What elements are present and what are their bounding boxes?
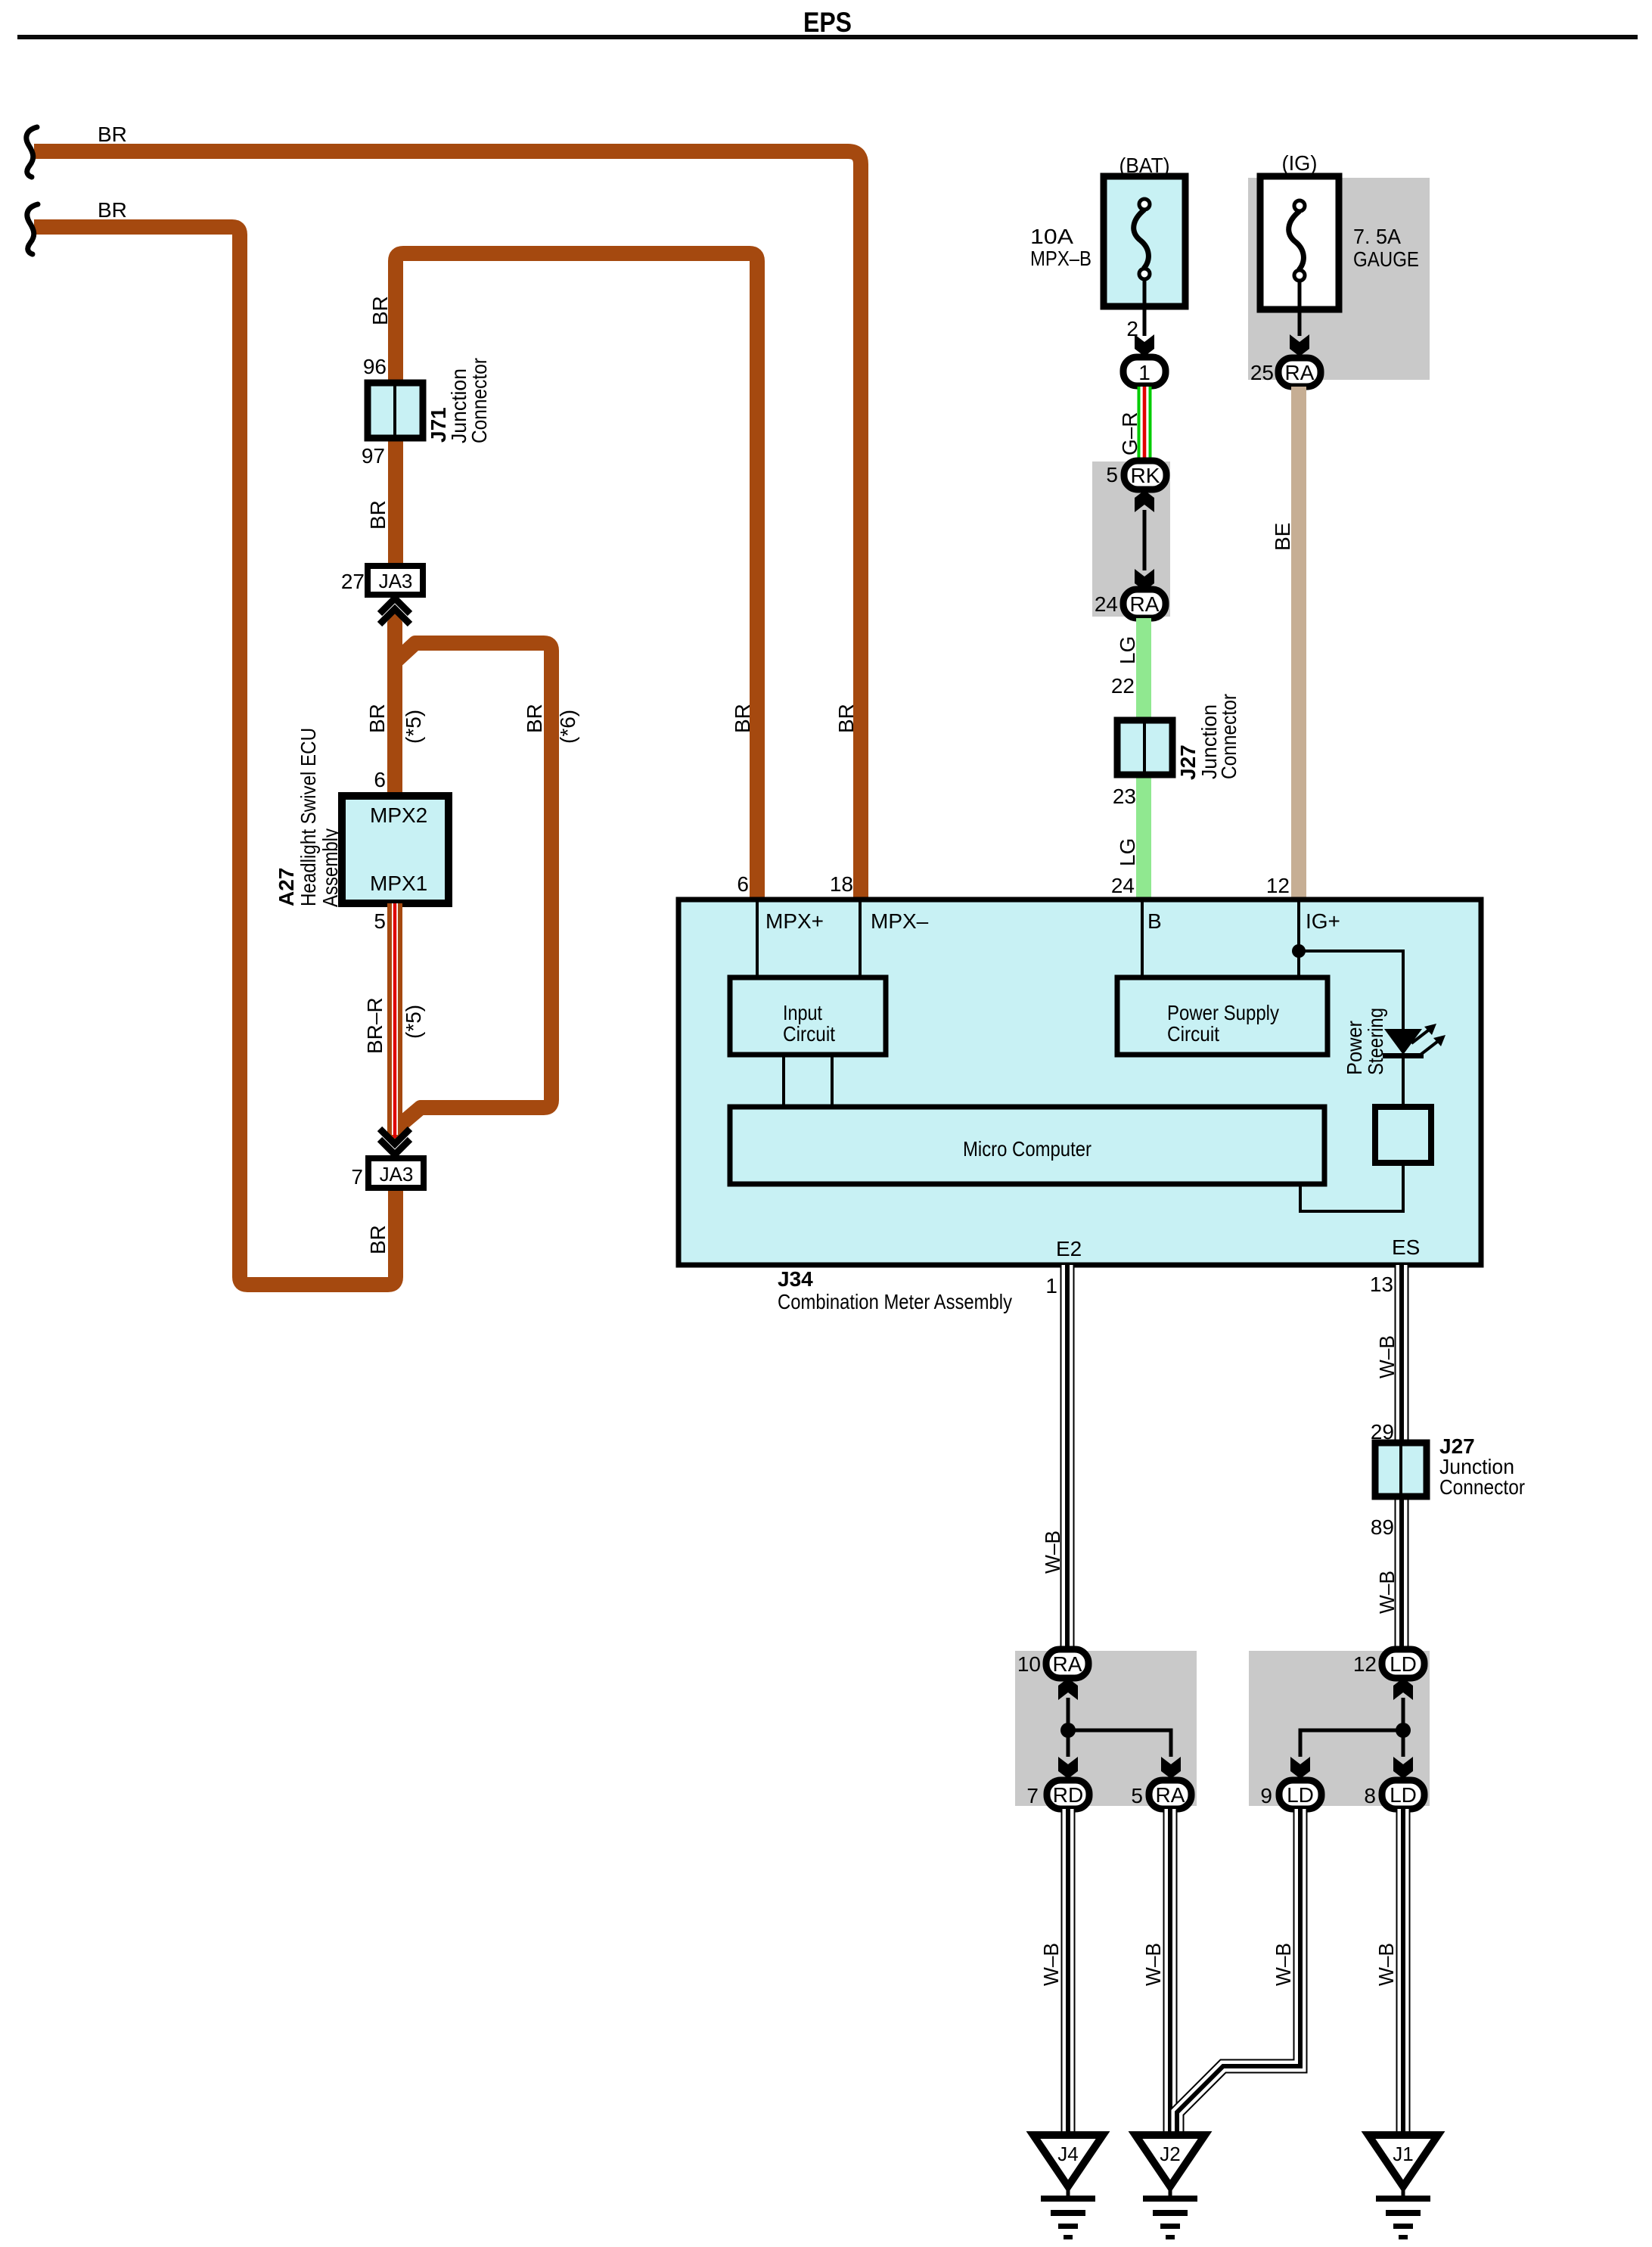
svg-text:24: 24	[1095, 592, 1118, 616]
svg-text:12: 12	[1353, 1652, 1377, 1676]
connector oval LD 12	[1382, 1649, 1424, 1678]
arrow up into LD 12	[1393, 1678, 1413, 1700]
svg-text:Connector: Connector	[1439, 1475, 1525, 1499]
svg-text:7: 7	[351, 1165, 363, 1189]
svg-text:1: 1	[1045, 1274, 1057, 1298]
svg-text:MPX2: MPX2	[370, 803, 427, 827]
arrow into RA 25	[1290, 334, 1309, 356]
junction connector J27 lower	[1375, 1443, 1427, 1496]
svg-text:E2: E2	[1056, 1237, 1082, 1260]
driver square	[1375, 1107, 1431, 1163]
arrow down to RD 7	[1058, 1757, 1078, 1779]
svg-text:GAUGE: GAUGE	[1353, 247, 1419, 271]
wire W-B ES pin13 down	[1395, 1265, 1409, 1651]
lead square to micro computer	[1300, 1163, 1403, 1211]
svg-text:B: B	[1147, 909, 1162, 933]
svg-text:A27: A27	[275, 868, 298, 906]
svg-text:27: 27	[341, 570, 365, 593]
svg-text:J1: J1	[1393, 2143, 1413, 2165]
arrow down to RA 5	[1161, 1757, 1181, 1779]
svg-text:RA: RA	[1156, 1783, 1185, 1807]
internal lead B	[1141, 902, 1144, 977]
leads input circuit to micro computer	[784, 1055, 832, 1107]
svg-text:ES: ES	[1392, 1235, 1420, 1259]
label 10A MPX-B	[1030, 225, 1091, 270]
label J27 Junction Connector horizontal	[1439, 1434, 1525, 1499]
ground J4	[1033, 2135, 1103, 2239]
lead LD12 to junction dot	[1402, 1698, 1405, 1757]
svg-text:18: 18	[830, 872, 853, 896]
LED power steering indicator	[1383, 1024, 1445, 1058]
label 7. 5A GAUGE	[1353, 225, 1419, 271]
wire LG upper	[1136, 618, 1151, 720]
meter assembly J34 box	[678, 900, 1481, 1265]
svg-text:BR: BR	[834, 704, 858, 733]
junction dot left block	[1060, 1723, 1076, 1738]
junction dot IG+	[1292, 944, 1306, 958]
connector JA3 pin 27	[368, 566, 423, 595]
internal lead MPX-	[859, 902, 862, 977]
arrow up to RK	[1135, 490, 1154, 512]
svg-text:LD: LD	[1390, 1652, 1417, 1676]
lead from dot to LED	[1299, 951, 1403, 1029]
connector oval RK	[1124, 461, 1166, 489]
lead dot to RA5 branch	[1068, 1730, 1171, 1757]
connector oval RA 25	[1278, 358, 1321, 387]
svg-text:W–B: W–B	[1039, 1943, 1063, 1986]
svg-text:LG: LG	[1116, 838, 1139, 866]
connector oval LD 8	[1382, 1780, 1424, 1809]
svg-text:LG: LG	[1116, 636, 1139, 664]
fuse 10A MPX-B	[1104, 176, 1185, 306]
power supply circuit box	[1117, 977, 1327, 1055]
svg-text:7: 7	[1026, 1784, 1039, 1807]
svg-text:JA3: JA3	[379, 570, 413, 592]
wire G-R	[1138, 387, 1152, 461]
wire start squiggle 2	[27, 204, 38, 254]
wire BR-R (*5) A27 pin5 to JA3 pin7	[387, 903, 402, 1142]
svg-text:(IG): (IG)	[1282, 151, 1318, 175]
connector oval RA 5	[1149, 1780, 1191, 1809]
svg-text:W–B: W–B	[1374, 1943, 1398, 1986]
svg-text:MPX–B: MPX–B	[1030, 247, 1091, 270]
svg-text:RD: RD	[1053, 1783, 1083, 1807]
svg-text:W–B: W–B	[1141, 1943, 1165, 1986]
relay block gray RK/RA	[1092, 462, 1170, 617]
svg-text:(*5): (*5)	[402, 1005, 425, 1039]
arrow down to RA	[1135, 569, 1154, 591]
svg-text:Circuit: Circuit	[783, 1022, 835, 1046]
svg-text:BR: BR	[366, 500, 390, 530]
svg-text:96: 96	[363, 355, 387, 378]
label BR-R (*5)	[363, 997, 425, 1054]
svg-text:RA: RA	[1130, 592, 1160, 616]
junction connector J27 upper	[1117, 720, 1172, 775]
arrow down to LD 9	[1290, 1757, 1310, 1779]
ground distribution block right gray	[1249, 1651, 1430, 1806]
wire BE	[1291, 387, 1306, 900]
svg-text:5: 5	[1131, 1784, 1143, 1807]
svg-text:MPX1: MPX1	[370, 872, 427, 895]
wire W-B RA5 to ground J2	[1163, 1809, 1178, 2135]
internal lead MPX+	[756, 902, 759, 977]
svg-text:25: 25	[1250, 361, 1274, 384]
wire BR branch (*6) bypass	[396, 643, 551, 1129]
svg-text:Power: Power	[1343, 1021, 1366, 1075]
gray block around IG fuse	[1248, 178, 1430, 380]
svg-text:W–B: W–B	[1041, 1531, 1064, 1574]
wire BR loop through J71 to J34 MPX+ pin 6	[396, 253, 757, 900]
svg-text:MPX–: MPX–	[871, 909, 929, 933]
label Power Steering	[1343, 1008, 1387, 1075]
svg-text:Steering: Steering	[1364, 1008, 1387, 1075]
arrow into connector 1	[1135, 334, 1154, 356]
wire BR1 top horizontal to J34 MPX- pin 18	[34, 151, 861, 900]
svg-text:MPX+: MPX+	[765, 909, 824, 933]
chevrons down above JA3-7	[380, 1129, 410, 1155]
svg-text:6: 6	[374, 768, 386, 791]
svg-text:W–B: W–B	[1375, 1571, 1399, 1614]
micro computer box	[730, 1107, 1324, 1184]
label J34 Combination Meter Assembly	[778, 1267, 1012, 1313]
svg-text:Input: Input	[783, 1001, 822, 1024]
svg-text:BR: BR	[523, 704, 546, 733]
svg-text:Assembly: Assembly	[318, 828, 342, 907]
svg-text:12: 12	[1266, 874, 1290, 897]
lead LED to driver square	[1402, 1058, 1405, 1107]
svg-text:BR: BR	[366, 1225, 390, 1254]
junction connector J71	[368, 383, 423, 438]
ground J1	[1368, 2135, 1438, 2239]
label A27 Headlight Swivel ECU Assembly	[275, 728, 342, 907]
wire W-B LD9 dogleg to ground J2	[1177, 1809, 1300, 2135]
arrow up into RA 10	[1058, 1678, 1078, 1700]
svg-text:5: 5	[1106, 463, 1118, 486]
connector JA3 pin 7	[368, 1158, 424, 1188]
fuse 7.5A GAUGE	[1260, 176, 1339, 309]
label BR (*5) left wire	[365, 704, 425, 744]
svg-text:BR–R: BR–R	[363, 997, 387, 1054]
svg-text:(*5): (*5)	[402, 710, 425, 744]
svg-text:BR: BR	[365, 704, 389, 733]
ground J2	[1135, 2135, 1205, 2239]
ECU A27 Headlight Swivel ECU Assembly box	[342, 796, 449, 903]
svg-text:BE: BE	[1271, 523, 1294, 551]
svg-text:BR: BR	[98, 123, 127, 146]
svg-text:RK: RK	[1131, 464, 1160, 487]
svg-text:J34: J34	[778, 1267, 813, 1291]
junction dot right block	[1396, 1723, 1411, 1738]
lead RA10 to junction dot	[1067, 1698, 1070, 1757]
wire W-B LD8 to ground J1	[1396, 1809, 1411, 2135]
label BR (*6) branch wire	[523, 704, 579, 744]
lead fuse BAT to connector 1	[1143, 281, 1147, 336]
svg-text:89: 89	[1371, 1515, 1394, 1539]
svg-text:6: 6	[737, 872, 749, 896]
svg-text:7. 5A: 7. 5A	[1353, 225, 1401, 248]
svg-text:EPS: EPS	[803, 7, 852, 38]
wire W-B RD7 to ground J4	[1061, 1809, 1076, 2135]
wire BR JA3-27 to A27 pin 6	[387, 611, 402, 796]
svg-text:8: 8	[1364, 1784, 1376, 1807]
svg-text:RA: RA	[1053, 1652, 1082, 1676]
svg-text:W–B: W–B	[1375, 1335, 1399, 1378]
lead dot to LD9 branch	[1300, 1730, 1403, 1757]
svg-text:Connector: Connector	[1217, 694, 1241, 779]
svg-text:13: 13	[1370, 1273, 1393, 1296]
svg-text:(*6): (*6)	[556, 710, 579, 744]
svg-text:LD: LD	[1287, 1783, 1314, 1807]
svg-text:Circuit: Circuit	[1167, 1022, 1219, 1046]
input circuit box	[730, 977, 886, 1055]
svg-text:RA: RA	[1285, 361, 1315, 384]
svg-text:BR: BR	[731, 704, 754, 733]
svg-text:23: 23	[1113, 785, 1136, 808]
svg-text:Micro Computer: Micro Computer	[963, 1137, 1091, 1161]
arrow down to LD 8	[1393, 1757, 1413, 1779]
connector oval LD 9	[1279, 1780, 1321, 1809]
wire start squiggle 1	[26, 127, 37, 177]
wire BR2 lower-left loop to JA3 pin 7	[34, 227, 396, 1285]
svg-text:5: 5	[374, 909, 386, 933]
svg-text:Power Supply: Power Supply	[1167, 1001, 1279, 1024]
internal lead IG+	[1297, 902, 1300, 977]
wire W-B E2 pin1 down	[1060, 1265, 1075, 1651]
svg-text:LD: LD	[1390, 1783, 1417, 1807]
svg-text:J4: J4	[1057, 2143, 1078, 2165]
label J71 Junction Connector	[427, 358, 491, 443]
svg-text:10: 10	[1017, 1652, 1041, 1676]
svg-text:G–R: G–R	[1118, 412, 1141, 455]
ground distribution block left gray	[1015, 1651, 1197, 1806]
svg-text:J27: J27	[1176, 744, 1200, 780]
svg-text:JA3: JA3	[380, 1163, 414, 1186]
svg-text:9: 9	[1260, 1784, 1272, 1807]
label J27 Junction Connector rotated	[1176, 694, 1241, 780]
svg-text:Headlight Swivel ECU: Headlight Swivel ECU	[297, 728, 320, 906]
link line RK to RA	[1143, 510, 1147, 570]
svg-text:10A: 10A	[1030, 225, 1073, 248]
svg-text:97: 97	[362, 444, 385, 468]
svg-text:W–B: W–B	[1272, 1943, 1295, 1986]
connector oval RA 24	[1123, 589, 1166, 618]
wire LG lower	[1136, 775, 1151, 900]
connector oval RA 10	[1046, 1649, 1088, 1678]
svg-text:22: 22	[1111, 674, 1135, 698]
svg-text:1: 1	[1138, 361, 1150, 384]
svg-text:24: 24	[1111, 874, 1135, 897]
connector oval RD 7	[1047, 1780, 1089, 1809]
svg-text:BR: BR	[368, 296, 392, 325]
header rule	[17, 35, 1638, 39]
lead fuse IG to RA 25	[1298, 282, 1302, 336]
svg-text:IG+: IG+	[1306, 909, 1340, 933]
svg-text:Combination Meter Assembly: Combination Meter Assembly	[778, 1290, 1012, 1313]
connector oval 1	[1123, 357, 1166, 386]
chevrons up below JA3-27	[380, 598, 410, 624]
svg-text:Connector: Connector	[467, 358, 491, 443]
svg-text:BR: BR	[98, 198, 127, 222]
svg-text:J2: J2	[1160, 2143, 1180, 2165]
